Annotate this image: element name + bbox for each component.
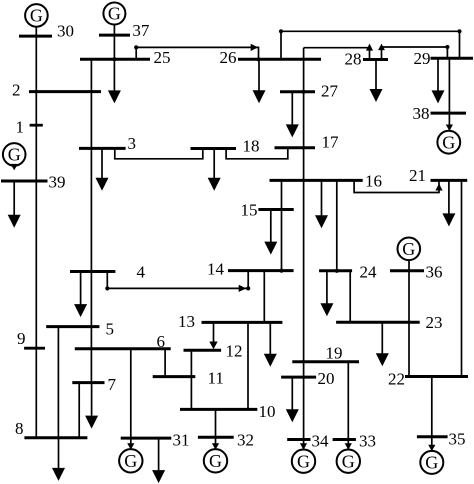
svg-text:G: G — [297, 451, 310, 471]
bus 4 — [70, 263, 146, 282]
flow arrowhead line 25-26 into bus 26 — [251, 44, 259, 51]
svg-text:9: 9 — [17, 329, 26, 348]
bus 20 — [281, 369, 334, 388]
arrowhead onto generator G33 — [345, 443, 352, 450]
flow arrowhead line 4-14 into bus 14 — [239, 285, 247, 292]
arrowhead below generator G39 — [11, 164, 18, 171]
bus 3 — [79, 134, 136, 153]
svg-text:32: 32 — [237, 431, 254, 450]
load arrow bus 8 — [52, 438, 65, 481]
svg-text:15: 15 — [241, 201, 258, 220]
wire 26-29 — [281, 31, 460, 59]
load arrow bus 27 — [286, 92, 299, 138]
generator G34 — [292, 450, 315, 473]
load arrow bus 3 — [96, 148, 109, 190]
load arrow bus 23 — [376, 322, 389, 366]
bus 38 — [413, 104, 467, 123]
junction corner line 4-14 at bus 4 — [105, 286, 109, 290]
bus 33 — [333, 432, 376, 451]
svg-text:G: G — [209, 451, 222, 471]
bus 8 — [15, 419, 87, 438]
svg-text:33: 33 — [359, 432, 376, 451]
arrowhead onto generator G38 — [446, 125, 453, 132]
wire 13-10 — [247, 322, 249, 409]
bus 27 — [280, 82, 339, 101]
bus 26 — [220, 48, 322, 67]
svg-text:23: 23 — [426, 313, 443, 332]
wire 21-22 — [461, 180, 463, 376]
bus 11 — [153, 369, 224, 388]
svg-text:8: 8 — [15, 419, 24, 438]
svg-text:G: G — [425, 453, 438, 473]
generator G33 — [337, 450, 360, 473]
bus 39 — [1, 173, 66, 192]
wire 5-8 — [57, 327, 59, 438]
svg-text:20: 20 — [318, 369, 335, 388]
generator G36 — [398, 238, 421, 261]
svg-text:6: 6 — [157, 332, 166, 351]
svg-text:28: 28 — [345, 50, 362, 69]
load arrow bus 18 — [208, 149, 221, 191]
bus 16 — [270, 172, 383, 191]
generator G31 — [119, 449, 142, 472]
svg-text:21: 21 — [409, 166, 426, 185]
svg-text:35: 35 — [449, 430, 466, 449]
wire 10-32 — [215, 409, 217, 449]
junction corner line 28-29 at bus 29 — [445, 45, 449, 49]
bus 31 — [121, 431, 190, 450]
bus 17 — [275, 133, 340, 152]
bus 15 — [241, 201, 294, 220]
svg-text:36: 36 — [426, 263, 443, 282]
arrowhead onto generator G35 — [428, 445, 435, 452]
svg-text:12: 12 — [226, 342, 243, 361]
flow arrowhead line 28-29 at bus 28 stub — [378, 44, 385, 51]
junction line 16-24 on bus 24 — [335, 269, 339, 273]
load arrow bus 29 — [432, 58, 445, 103]
svg-text:3: 3 — [128, 134, 137, 153]
load arrow bus 21 — [442, 180, 455, 226]
junction line 14-15 on bus 14 — [279, 269, 283, 273]
svg-text:34: 34 — [312, 432, 330, 451]
wire 30-2-1-39-9-8 column — [35, 27, 37, 438]
bus 23 — [336, 313, 442, 332]
junction corner line 4-14 at bus 14 — [246, 286, 250, 290]
svg-text:19: 19 — [326, 344, 343, 363]
svg-text:16: 16 — [365, 172, 382, 191]
junction bus25 stub / line 25-26 — [134, 45, 138, 49]
load arrow bus 39 — [8, 181, 21, 228]
wire 18-17 — [226, 148, 288, 159]
load arrow bus 13 — [264, 322, 277, 366]
wire 22-35 — [431, 377, 433, 451]
wire 16-15-14 — [281, 180, 283, 270]
svg-text:4: 4 — [137, 263, 146, 282]
junction line 26-27 on bus 27 — [302, 90, 306, 94]
svg-text:G: G — [30, 6, 43, 26]
bus 14 — [207, 260, 294, 279]
svg-text:24: 24 — [360, 263, 378, 282]
wire 3-18 — [115, 148, 203, 158]
wire 19-33 — [347, 362, 349, 450]
generator G37 — [103, 3, 125, 25]
bus 19 — [292, 344, 359, 363]
svg-text:22: 22 — [388, 370, 405, 389]
bus 6 — [75, 332, 171, 351]
bus 37 — [99, 21, 150, 40]
bus 12 — [184, 342, 243, 361]
wire 36-23-22 — [408, 260, 410, 377]
load arrow bus 16 — [315, 180, 328, 228]
wire 16-21 — [354, 180, 439, 192]
wire 6-31 — [130, 349, 132, 449]
generator G32 — [204, 449, 227, 472]
load arrow bus 24 — [320, 271, 333, 316]
bus 21 — [409, 166, 467, 185]
generator G39 — [3, 143, 26, 166]
wire 29-38 — [448, 58, 450, 131]
bus 5 — [46, 320, 114, 339]
junction bus26 stub / line 26-29 — [279, 29, 283, 33]
bus 28 — [345, 50, 389, 69]
generator G38 — [437, 131, 460, 154]
svg-text:G: G — [8, 145, 21, 165]
wire 6-11 — [164, 349, 166, 377]
svg-text:30: 30 — [57, 22, 74, 41]
bus 32 — [198, 431, 254, 450]
flow arrowhead line 26-28 at bus 28 — [366, 44, 373, 51]
arrowhead onto generator G32 — [212, 443, 219, 450]
svg-text:G: G — [442, 132, 455, 152]
svg-text:31: 31 — [173, 431, 190, 450]
bus 36 — [390, 263, 443, 282]
junction line 25-26 on bus 26 — [256, 57, 260, 61]
arrowhead onto generator G34 — [300, 443, 307, 450]
svg-text:13: 13 — [178, 312, 195, 331]
svg-text:27: 27 — [321, 82, 339, 101]
svg-text:G: G — [342, 451, 355, 471]
wire 37-25 — [113, 24, 115, 59]
generator G30 — [25, 4, 48, 27]
bus 30 — [19, 22, 74, 41]
bus 7 — [72, 375, 116, 394]
wire 12-11-10 — [190, 350, 192, 409]
arrowhead onto generator G31 — [127, 443, 134, 450]
svg-text:2: 2 — [12, 81, 21, 100]
bus 1 — [16, 118, 43, 137]
bus 24 — [319, 263, 377, 282]
wire 4-14 — [107, 271, 248, 289]
load arrow bus 15 — [264, 210, 277, 255]
junction corner line 26-29 at bus 29 — [457, 29, 461, 33]
svg-text:39: 39 — [49, 173, 66, 192]
wire 26-28 — [304, 48, 370, 60]
svg-text:17: 17 — [322, 133, 340, 152]
svg-text:G: G — [124, 451, 137, 471]
svg-text:7: 7 — [108, 375, 117, 394]
svg-text:G: G — [402, 239, 415, 259]
wire 23-24 — [349, 271, 351, 322]
wire 14-13 — [263, 271, 265, 323]
wire 13-12 — [213, 322, 215, 342]
svg-text:18: 18 — [243, 137, 260, 156]
wire 7-8 — [78, 383, 80, 438]
bus 18 — [191, 137, 260, 156]
svg-text:G: G — [108, 4, 121, 24]
load arrow bus 20 — [286, 377, 299, 422]
generator G35 — [420, 451, 443, 474]
svg-text:29: 29 — [414, 49, 431, 68]
svg-text:5: 5 — [106, 320, 115, 339]
load arrow bus 26 — [253, 59, 266, 103]
svg-text:37: 37 — [132, 21, 150, 40]
wire 26-27-17-16-19-20-34 column — [303, 48, 305, 450]
load arrow bus 4 — [74, 272, 87, 318]
flow arrowhead line 16-21 into bus 21 — [435, 184, 442, 191]
load arrow bus 7 — [85, 383, 98, 429]
svg-text:10: 10 — [259, 402, 276, 421]
bus 9 — [17, 329, 45, 348]
junction bus37 feeder on bus 25 — [112, 57, 116, 61]
bus 13 — [178, 312, 282, 331]
svg-text:11: 11 — [208, 369, 224, 388]
load arrow bus 25 — [108, 59, 121, 103]
load arrow bus 31 — [152, 438, 165, 483]
load arrow bus 28 — [370, 60, 383, 103]
svg-text:38: 38 — [413, 104, 430, 123]
bus 2 — [12, 81, 101, 100]
svg-text:1: 1 — [16, 118, 25, 137]
wire 28-29 — [382, 47, 448, 60]
bus 22 — [388, 370, 468, 389]
svg-text:25: 25 — [154, 48, 171, 67]
wire 25-26 — [136, 47, 258, 59]
bus 35 — [417, 430, 466, 449]
svg-text:14: 14 — [207, 260, 225, 279]
bus 29 — [414, 49, 474, 68]
wire 25-2-3-4-5-6-7 column — [90, 59, 92, 382]
wire 16-24 — [336, 180, 338, 270]
bus 25 — [80, 48, 171, 67]
svg-text:26: 26 — [220, 48, 237, 67]
bus 34 — [287, 432, 329, 451]
bus 10 — [180, 402, 276, 421]
